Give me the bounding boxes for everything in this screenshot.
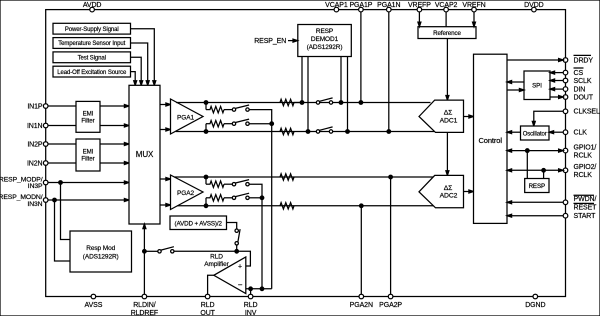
pin RESP_MODN/IN3N bbox=[43, 198, 48, 203]
node PGA2P tap bbox=[389, 175, 393, 179]
wire RESP_EN bbox=[288, 40, 293, 42]
svg-text:IN2N: IN2N bbox=[27, 160, 43, 167]
resistor PGA2 feedback P bbox=[210, 181, 224, 187]
wire PGA2 RLD sense line down bbox=[261, 198, 263, 289]
svg-text:INV: INV bbox=[245, 310, 257, 316]
svg-text:(ADS1292R): (ADS1292R) bbox=[307, 44, 343, 51]
EMI filter 2 bbox=[76, 139, 100, 171]
resistor PGA1 feedback N bbox=[210, 121, 224, 127]
wire PGA2 outP line bbox=[174, 176, 433, 178]
node resp demod B bbox=[306, 130, 310, 134]
node PGA2N tap bbox=[360, 204, 364, 208]
wire MUX to PGA2 inP bbox=[160, 178, 166, 180]
pin AVDD bbox=[90, 7, 95, 12]
wire CLK to Oscillator bbox=[553, 131, 563, 133]
test signal source box bbox=[53, 52, 131, 63]
switch PGA2 feedback N bbox=[232, 196, 235, 199]
chip boundary bbox=[46, 10, 566, 297]
svg-text:(AVDD + AVSS)/2: (AVDD + AVSS)/2 bbox=[175, 220, 223, 227]
svg-text:AVDD: AVDD bbox=[83, 2, 102, 9]
wire RLD INV pin bbox=[250, 289, 252, 294]
wire PGA1 outN line bbox=[176, 131, 435, 133]
node PGA2 sense join bbox=[260, 287, 264, 291]
wire CS to SPI bbox=[554, 72, 563, 74]
ADC ADC2 bbox=[419, 175, 464, 207]
wire SPI to DOUT bbox=[550, 96, 559, 98]
svg-text:DIN: DIN bbox=[574, 87, 586, 94]
wire IN3N to MUX bbox=[48, 199, 124, 201]
svg-text:Resp Mod: Resp Mod bbox=[86, 245, 115, 252]
wire GPIO1/RCLK bbox=[511, 150, 558, 152]
node GPIO2 resp tap bbox=[542, 169, 546, 173]
pin IN2N bbox=[43, 161, 48, 166]
pin VCAP2 bbox=[444, 7, 449, 12]
wire IN3N to Resp Mod bbox=[55, 200, 71, 261]
wire PGA1 RLD sense line down bbox=[271, 124, 273, 289]
Resp Mod (ADS1292R) box bbox=[70, 231, 132, 272]
svg-text:IN2P: IN2P bbox=[27, 141, 43, 148]
pin PGA2P bbox=[388, 294, 393, 299]
svg-text:DEMOD1: DEMOD1 bbox=[311, 36, 339, 43]
pin CLK bbox=[563, 130, 568, 135]
wire switch to RLD plus line bbox=[236, 245, 238, 251]
wire MUX to PGA1 inN bbox=[160, 129, 166, 131]
wire PGA2 feedback N bbox=[205, 198, 207, 206]
wire power-supply signal source to MUX bbox=[131, 29, 155, 86]
svg-text:SCLK: SCLK bbox=[574, 78, 592, 85]
svg-text:OUT: OUT bbox=[200, 310, 215, 316]
svg-text:Lead-Off Excitation Source: Lead-Off Excitation Source bbox=[57, 70, 127, 76]
wire IN3P to MUX bbox=[48, 182, 124, 184]
pin DRDY bbox=[563, 58, 568, 63]
pin DIN bbox=[563, 87, 568, 92]
svg-text:+: + bbox=[238, 263, 242, 270]
svg-text:VCAP2: VCAP2 bbox=[435, 2, 458, 9]
svg-text:DOUT: DOUT bbox=[574, 94, 594, 101]
node GPIO1 resp tap bbox=[526, 149, 530, 153]
pin RLD INV bbox=[248, 294, 253, 299]
wire Oscillator to Control bbox=[511, 131, 520, 133]
wire RLDIN to MUX bbox=[143, 229, 145, 295]
svg-text:Reference: Reference bbox=[433, 30, 461, 37]
wire SCLK to SPI bbox=[554, 80, 563, 82]
resistor PGA2 feedback N bbox=[210, 195, 224, 201]
wire resp demod line A bbox=[301, 57, 303, 103]
svg-text:GPIO2/: GPIO2/ bbox=[574, 164, 597, 171]
switch RLD midsupply bbox=[235, 229, 238, 232]
pin RLDIN/RLDREF bbox=[142, 294, 147, 299]
RESP box bbox=[525, 179, 549, 193]
wire reference to ADC2 bbox=[446, 132, 448, 171]
svg-text:VREFP: VREFP bbox=[408, 2, 431, 9]
node PGA2 feedback join bbox=[260, 196, 264, 200]
node PGA1N tap bbox=[387, 130, 391, 134]
pin IN1P bbox=[43, 104, 48, 109]
pin IN1N bbox=[43, 123, 48, 128]
lead-off excitation source box bbox=[53, 66, 131, 77]
wire GPIO2/RCLK bbox=[511, 169, 558, 171]
wire IN2P to MUX bbox=[48, 143, 76, 145]
wire VCAP2 bbox=[445, 12, 447, 27]
wire test signal source to MUX bbox=[131, 57, 142, 85]
svg-text:Filter: Filter bbox=[81, 118, 94, 125]
Reference box bbox=[418, 27, 476, 39]
node resp demod D bbox=[346, 130, 350, 134]
svg-text:Control: Control bbox=[478, 136, 502, 145]
svg-text:IN3N: IN3N bbox=[27, 201, 42, 208]
switch PGA2 feedback P bbox=[232, 183, 235, 186]
svg-text:Test Signal: Test Signal bbox=[78, 56, 106, 62]
svg-text:DVDD: DVDD bbox=[524, 2, 543, 9]
node IN3P tap bbox=[59, 181, 63, 185]
svg-text:DGND: DGND bbox=[525, 302, 545, 309]
node PGA2 outP feedback tap bbox=[204, 175, 208, 179]
node PGA1 feedback join bbox=[270, 122, 274, 126]
pin VCAP1 bbox=[334, 7, 339, 12]
pin AVSS bbox=[91, 294, 96, 299]
pin IN2P bbox=[43, 142, 48, 147]
wire PGA2N pin bbox=[360, 206, 362, 294]
EMI filter 1 bbox=[76, 101, 100, 132]
wire PGA1 feedback N join bbox=[249, 123, 272, 125]
wire temperature sensor input source to MUX bbox=[131, 43, 148, 85]
wire GPIO1 to RESP bbox=[526, 151, 528, 179]
pin CLKSEL bbox=[563, 109, 568, 114]
svg-text:PGA2N: PGA2N bbox=[350, 302, 373, 309]
pin PWDN/RESET bbox=[563, 200, 568, 205]
svg-text:SPI: SPI bbox=[532, 83, 542, 90]
svg-text:MUX: MUX bbox=[136, 150, 154, 159]
wire VREFP bbox=[418, 12, 420, 22]
wire CLKSEL to Oscillator bbox=[534, 111, 563, 122]
switch PGA1 feedback N bbox=[232, 122, 235, 125]
node PGA1 outP feedback tap bbox=[204, 101, 208, 105]
MUX bbox=[129, 85, 160, 224]
Control box bbox=[474, 54, 508, 223]
node RLD INV tap bbox=[249, 287, 253, 291]
wire RLD minus line bbox=[246, 288, 272, 290]
svg-text:IN3P: IN3P bbox=[28, 183, 43, 190]
wire lead-off excitation source to MUX bbox=[131, 72, 136, 86]
wire GPIO2 to RESP bbox=[543, 170, 545, 178]
wire DIN to SPI bbox=[554, 88, 563, 90]
pin VREFP bbox=[417, 7, 422, 12]
svg-text:PGA1P: PGA1P bbox=[349, 2, 372, 9]
pin RESP_MODP/IN3P bbox=[43, 180, 48, 185]
resistor PGA1N series bbox=[280, 128, 294, 134]
svg-text:Oscillator: Oscillator bbox=[523, 131, 547, 137]
wire PGA2 feedback N join bbox=[249, 197, 262, 199]
svg-text:(ADS1292R): (ADS1292R) bbox=[83, 253, 119, 260]
svg-text:RESP_EN: RESP_EN bbox=[254, 38, 286, 45]
wire RLD amp output to RLD OUT bbox=[208, 275, 214, 294]
pin GPIO2/RCLK bbox=[563, 168, 568, 173]
pin CS bbox=[563, 70, 568, 75]
wire IN1N to MUX bbox=[48, 125, 76, 127]
wire midsupply to switch bbox=[227, 223, 237, 230]
wire ADC1 to Control bbox=[464, 116, 470, 118]
wire PWDN/RESET to Control bbox=[511, 201, 563, 203]
svg-text:AVSS: AVSS bbox=[85, 302, 103, 309]
wire PGA1 feedback P bbox=[205, 103, 207, 110]
svg-text:EMI: EMI bbox=[83, 111, 94, 118]
wire Control to DRDY bbox=[507, 59, 559, 61]
svg-text:GPIO1/: GPIO1/ bbox=[574, 145, 597, 152]
temperature sensor input source box bbox=[53, 38, 131, 49]
svg-text:Amplifier: Amplifier bbox=[204, 261, 229, 268]
svg-text:ΔΣ: ΔΣ bbox=[444, 185, 453, 192]
node PGA2 outN feedback tap bbox=[204, 204, 208, 208]
pin DOUT bbox=[563, 95, 568, 100]
svg-text:Temperature Sensor Input: Temperature Sensor Input bbox=[58, 41, 125, 47]
wire RLD plus line bbox=[146, 250, 158, 252]
wire PGA2 feedback P bbox=[205, 177, 207, 184]
wire ADC2 to Control bbox=[464, 191, 470, 193]
wire PGA1 feedback P to RLD join bbox=[249, 110, 272, 124]
Oscillator box bbox=[521, 126, 550, 140]
wire MUX to PGA2 inN bbox=[160, 204, 166, 206]
pin DGND bbox=[533, 294, 538, 299]
svg-text:RESP: RESP bbox=[316, 28, 333, 35]
svg-text:RESET: RESET bbox=[574, 204, 598, 211]
(AVDD + AVSS)/2 box bbox=[170, 216, 227, 230]
svg-text:DRDY: DRDY bbox=[574, 57, 594, 64]
wire MUX to PGA1 inP bbox=[160, 104, 166, 106]
svg-text:PWDN/: PWDN/ bbox=[574, 196, 597, 203]
svg-text:Power-Supply Signal: Power-Supply Signal bbox=[65, 27, 119, 33]
wire START to Control bbox=[511, 215, 563, 217]
pin GPIO1/RCLK bbox=[563, 148, 568, 153]
node RLDIN plus tap bbox=[143, 250, 147, 254]
pin PGA1N bbox=[387, 7, 392, 12]
resistor PGA2N series bbox=[280, 203, 294, 209]
node resp demod C bbox=[339, 101, 343, 105]
wire PGA1P pin bbox=[360, 12, 362, 103]
switch resp demod N bbox=[316, 130, 319, 133]
RESP DEMOD1 (ADS1292R) box bbox=[298, 25, 352, 57]
svg-text:VCAP1: VCAP1 bbox=[325, 2, 348, 9]
pin RLD OUT bbox=[205, 294, 210, 299]
op-amp PGA2 bbox=[171, 175, 204, 210]
switch RLD plus bbox=[158, 250, 161, 253]
svg-text:RLDREF: RLDREF bbox=[131, 310, 158, 316]
SPI box bbox=[524, 71, 550, 100]
svg-text:RESP: RESP bbox=[529, 183, 545, 190]
wire PGA1N pin bbox=[388, 12, 390, 132]
svg-text:CLKSEL: CLKSEL bbox=[574, 109, 600, 116]
svg-text:EMI: EMI bbox=[83, 149, 94, 156]
pin PGA1P bbox=[359, 7, 364, 12]
switch resp demod P bbox=[316, 101, 319, 104]
wire resp demod line B bbox=[307, 57, 309, 132]
svg-text:RCLK: RCLK bbox=[574, 172, 593, 179]
svg-text:ΔΣ: ΔΣ bbox=[444, 110, 453, 117]
pin PGA2N bbox=[359, 294, 364, 299]
pin SCLK bbox=[563, 78, 568, 83]
svg-text:ADC2: ADC2 bbox=[440, 193, 458, 200]
svg-text:RCLK: RCLK bbox=[574, 153, 593, 160]
svg-text:IN1P: IN1P bbox=[27, 103, 43, 110]
wire PGA1 outP line bbox=[176, 102, 430, 104]
node PGA1P tap bbox=[359, 101, 363, 105]
resistor PGA1P series bbox=[294, 102, 302, 104]
node resp demod A bbox=[300, 101, 304, 105]
pin VREFN bbox=[472, 7, 477, 12]
svg-text:RLD: RLD bbox=[210, 254, 223, 261]
svg-text:PGA1: PGA1 bbox=[177, 115, 194, 122]
svg-text:VREFN: VREFN bbox=[462, 2, 485, 9]
pin DVDD bbox=[532, 7, 537, 12]
wire IN2N to MUX bbox=[48, 162, 76, 164]
wire PGA2P pin bbox=[390, 177, 392, 294]
wire resp demod line D bbox=[347, 57, 349, 132]
node IN3N tap bbox=[53, 198, 57, 202]
wire IN1P to MUX bbox=[48, 105, 76, 107]
wire resp demod line C bbox=[340, 57, 342, 103]
svg-text:RLD: RLD bbox=[201, 302, 215, 309]
svg-text:ADC1: ADC1 bbox=[440, 117, 458, 124]
resistor PGA1 feedback P bbox=[210, 106, 224, 112]
svg-text:RLDIN/: RLDIN/ bbox=[133, 302, 156, 309]
svg-text:PGA2P: PGA2P bbox=[379, 302, 402, 309]
wire reference to ADC1 bbox=[446, 39, 448, 96]
op-amp RLD amplifier bbox=[214, 257, 246, 294]
svg-text:CLK: CLK bbox=[574, 130, 588, 137]
op-amp PGA1 bbox=[171, 99, 204, 134]
wire RLD plus to amp bbox=[174, 251, 250, 266]
svg-text:PGA2: PGA2 bbox=[177, 190, 194, 197]
svg-text:IN1N: IN1N bbox=[27, 123, 43, 130]
wire SPI to Control bbox=[511, 81, 524, 83]
power-supply signal source box bbox=[53, 23, 131, 34]
switch PGA1 feedback P bbox=[232, 108, 235, 111]
svg-text:−: − bbox=[238, 280, 243, 289]
svg-text:START: START bbox=[574, 213, 597, 220]
wire IN3P to Resp Mod bbox=[61, 183, 71, 240]
svg-text:PGA1N: PGA1N bbox=[377, 2, 400, 9]
node PGA1 outN feedback tap bbox=[204, 130, 208, 134]
wire VREFN bbox=[473, 12, 475, 22]
svg-text:Filter: Filter bbox=[81, 156, 94, 163]
wire PGA2 feedback P join bbox=[249, 184, 262, 198]
ADC ADC1 bbox=[419, 100, 464, 132]
node RLD plus midsupply bbox=[235, 250, 239, 254]
svg-text:CS: CS bbox=[574, 70, 584, 77]
svg-text:RLD: RLD bbox=[244, 302, 258, 309]
resistor PGA2P series bbox=[280, 174, 294, 180]
pin START bbox=[563, 213, 568, 218]
wire Control to SPI bbox=[507, 89, 520, 91]
wire PGA1 feedback N bbox=[205, 124, 207, 132]
wire PGA2 outN line bbox=[177, 205, 433, 207]
